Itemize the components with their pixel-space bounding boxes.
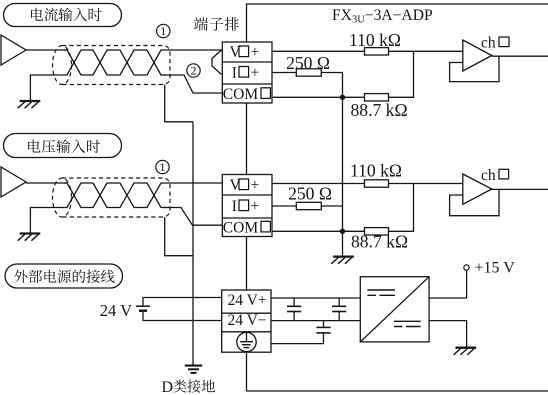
label box 电压输入时 bbox=[4, 134, 122, 158]
svg-text:+: + bbox=[251, 177, 260, 194]
DC-DC lower output wire bbox=[429, 321, 467, 348]
DC-DC output ground bbox=[456, 347, 477, 349]
ch1 I wire to 250 bbox=[272, 73, 343, 98]
shield drain bus to D-class earth bbox=[192, 122, 194, 365]
ch1 COM wire bbox=[272, 51, 414, 97]
svg-text:88.7 kΩ: 88.7 kΩ bbox=[351, 232, 408, 252]
ch2 shield drain wire bbox=[165, 217, 193, 256]
ch1 output wire bbox=[492, 55, 548, 57]
battery 24V leads bbox=[143, 298, 222, 306]
ch2 V wire to 110k bbox=[272, 183, 463, 185]
resistor 250 ch1 bbox=[296, 69, 321, 76]
op-amp ch1 bbox=[463, 40, 492, 71]
label text 类接地 bbox=[173, 380, 215, 393]
svg-text:24 V+: 24 V+ bbox=[228, 292, 267, 309]
svg-text:+: + bbox=[251, 65, 260, 82]
label text 电压输入时 bbox=[28, 139, 100, 153]
svg-text:+: + bbox=[251, 198, 260, 215]
svg-text:ch: ch bbox=[481, 35, 496, 52]
capacitor C1 bbox=[287, 298, 301, 321]
ch2 signal+ wire bbox=[26, 182, 67, 184]
ch1 input source triangle bbox=[1, 35, 26, 65]
svg-text:24 V: 24 V bbox=[100, 301, 132, 320]
ch1 V-I jumper bracket bbox=[212, 50, 222, 75]
svg-text:88.7 kΩ: 88.7 kΩ bbox=[350, 100, 407, 120]
analog common ground bbox=[333, 255, 354, 257]
resistor 88.7k ch2 bbox=[365, 228, 389, 235]
svg-text:250 Ω: 250 Ω bbox=[288, 184, 332, 204]
resistor 88.7k ch1 bbox=[365, 94, 389, 101]
terminal block 2 bbox=[222, 175, 272, 237]
FX3U-3A-ADP module outline bbox=[247, 4, 548, 391]
svg-text:1: 1 bbox=[160, 24, 166, 38]
ch2 signal- wire bbox=[30, 208, 64, 233]
ch2 cable shield bbox=[53, 178, 72, 217]
earth wire bbox=[271, 333, 324, 344]
24V+ wire to DC-DC bbox=[271, 297, 360, 299]
label box 外部电源的接线 bbox=[5, 264, 123, 288]
svg-text:2: 2 bbox=[191, 64, 197, 78]
ch1 signal+ wire bbox=[26, 49, 67, 51]
svg-text:COM: COM bbox=[223, 86, 259, 103]
svg-text:24 V−: 24 V− bbox=[228, 312, 267, 329]
D-class earth ground bbox=[185, 365, 202, 367]
protective earth terminal symbol bbox=[237, 332, 256, 351]
svg-text:I: I bbox=[232, 198, 237, 215]
24V- wire to DC-DC bbox=[271, 320, 360, 322]
svg-text:110 kΩ: 110 kΩ bbox=[350, 161, 402, 181]
resistor 250 ch2 bbox=[296, 202, 321, 209]
svg-text:ch: ch bbox=[481, 167, 496, 184]
ch2 output wire bbox=[492, 188, 548, 190]
ch1 cable shield bbox=[53, 46, 72, 85]
svg-text:110 kΩ: 110 kΩ bbox=[349, 30, 401, 50]
ch2 sensor-side ground bbox=[20, 232, 41, 234]
ch2 junction dot bbox=[340, 229, 345, 234]
label text 端子排 bbox=[194, 17, 239, 31]
resistor 110k ch1 bbox=[365, 48, 389, 55]
svg-text:FX3U−3A−ADP: FX3U−3A−ADP bbox=[332, 7, 433, 26]
terminal block 24V bbox=[222, 290, 271, 352]
+15V output wire bbox=[429, 270, 467, 298]
circled 1 (ch2 shield) bbox=[156, 160, 169, 173]
resistor 110k ch2 bbox=[365, 180, 389, 187]
svg-text:COM: COM bbox=[223, 220, 259, 237]
label box 电流输入时 bbox=[4, 4, 122, 27]
ch1 signal- wire bbox=[30, 75, 64, 100]
ch1 sensor-side ground bbox=[20, 100, 41, 102]
capacitor C3 bbox=[316, 321, 330, 333]
DC-DC converter bbox=[360, 277, 429, 342]
svg-text:250 Ω: 250 Ω bbox=[286, 53, 330, 73]
ch2 twisted pair bbox=[64, 183, 166, 208]
common vertical to ground bbox=[342, 97, 344, 256]
svg-text:1: 1 bbox=[160, 160, 166, 174]
ch1 junction dot bbox=[340, 95, 345, 100]
ch2 COM wire bbox=[272, 184, 414, 232]
terminal block 1 bbox=[222, 42, 272, 103]
label text 电流输入时 bbox=[31, 8, 101, 22]
+15V terminal circle bbox=[464, 265, 469, 270]
ch2 I wire to 250 bbox=[272, 205, 343, 207]
capacitor C2 bbox=[332, 298, 346, 321]
ch1 twisted pair bbox=[64, 50, 166, 75]
svg-text:+: + bbox=[251, 44, 260, 61]
svg-text:D: D bbox=[162, 379, 174, 395]
ch1 shield drain wire bbox=[165, 85, 193, 122]
circled 2 (V/I jumper) bbox=[187, 64, 200, 77]
svg-text:+15 V: +15 V bbox=[475, 260, 516, 277]
ch2 input source triangle bbox=[1, 167, 26, 197]
battery 24V plates bbox=[136, 305, 150, 307]
svg-text:I: I bbox=[232, 65, 237, 82]
label text 外部电源的接线 bbox=[14, 270, 115, 283]
ch1 V wire to 110k bbox=[272, 50, 463, 52]
op-amp ch2 bbox=[463, 174, 492, 204]
circled 1 (ch1 shield) bbox=[157, 24, 170, 37]
